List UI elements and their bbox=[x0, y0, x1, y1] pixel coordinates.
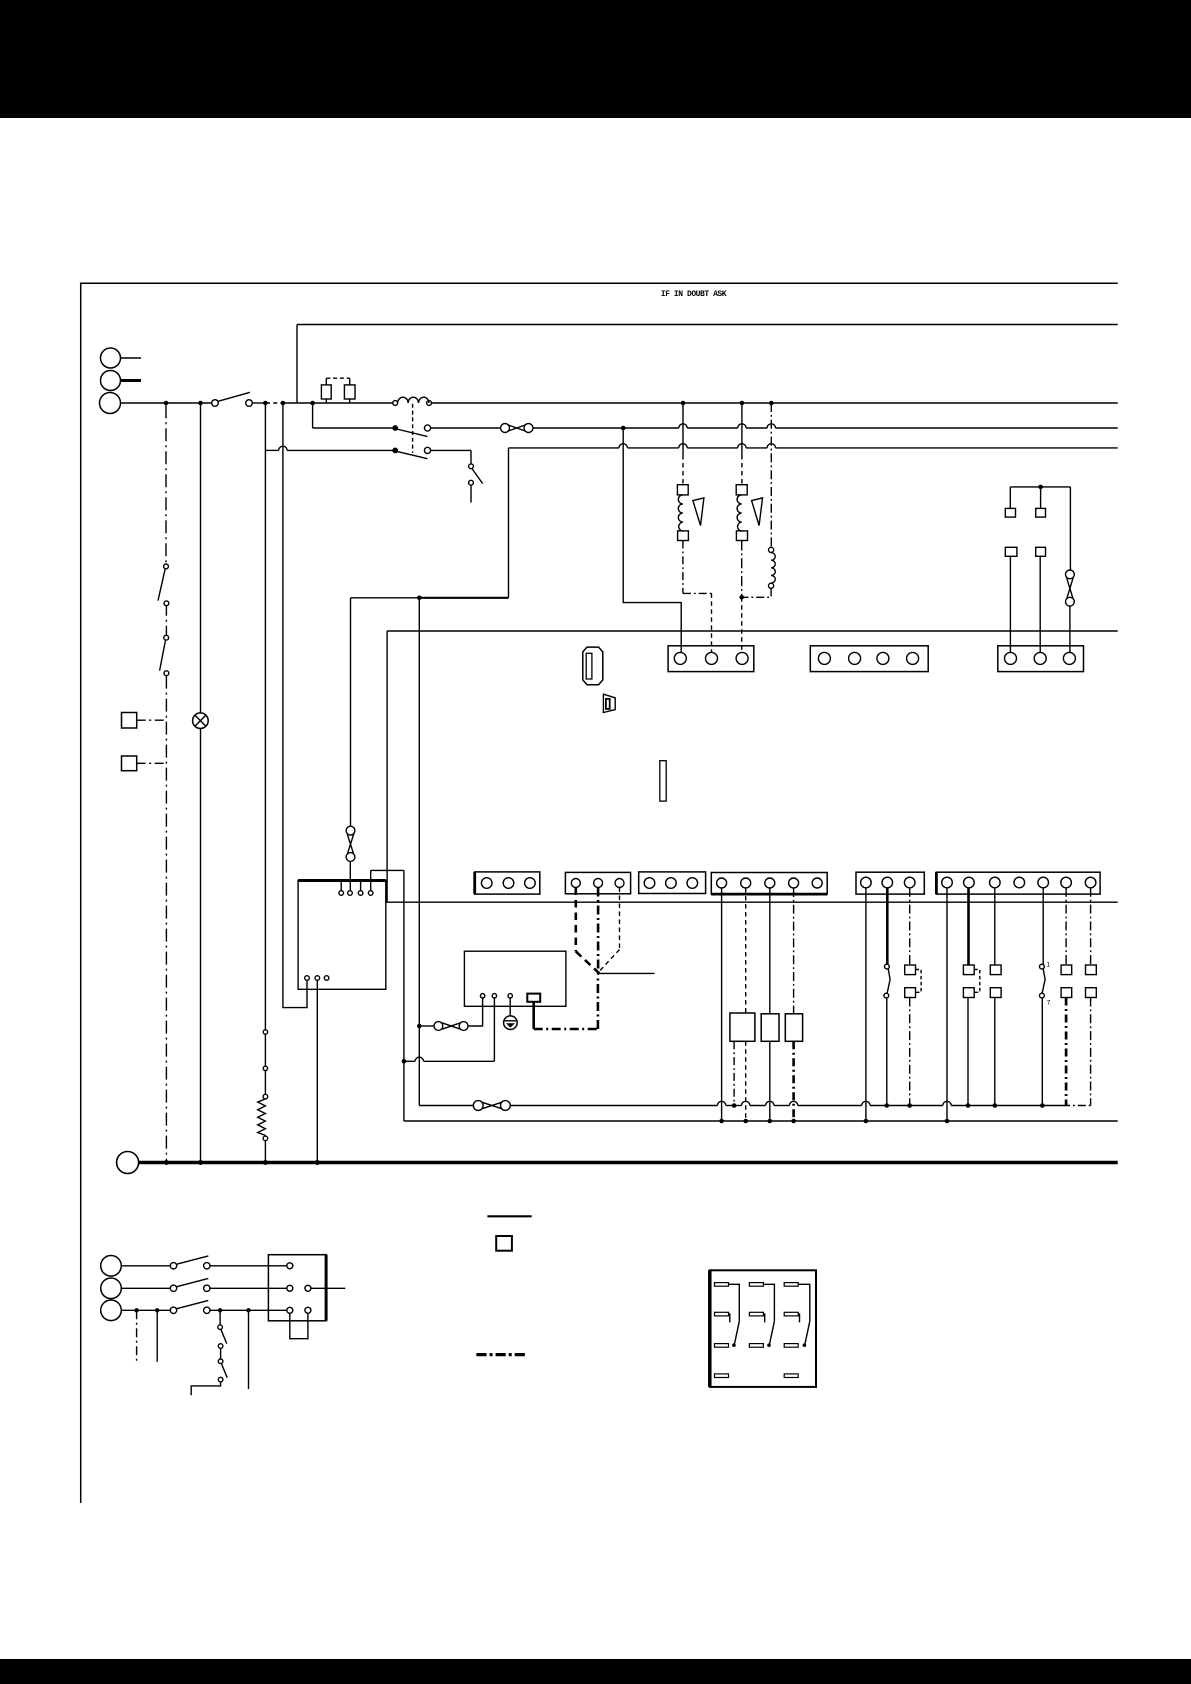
svg-text:1: 1 bbox=[1047, 962, 1051, 969]
inlet box contacts r2 bbox=[287, 1285, 346, 1291]
hop on line1 over D3 bbox=[766, 1101, 774, 1105]
node on main line x265 bbox=[263, 401, 268, 406]
wire: main live line y=403 bbox=[121, 402, 1118, 404]
thermal pair E3 bbox=[905, 965, 921, 998]
relay col2 wire and contact bbox=[763, 1284, 774, 1347]
control box top terminal t4 bbox=[368, 870, 373, 895]
terminal strip S1 bbox=[668, 646, 754, 672]
inlet connector box bbox=[268, 1255, 326, 1321]
relay col2 top terminal bbox=[749, 1283, 763, 1287]
switch on x166 (lower) bbox=[160, 635, 169, 675]
column D3 bbox=[769, 888, 771, 1014]
node F5 on line1 bbox=[1040, 1103, 1045, 1108]
indicator lamp bbox=[193, 713, 209, 729]
relay col1 bottom terminal bbox=[715, 1344, 729, 1348]
node main line x771.3 bbox=[769, 401, 774, 406]
relay col3 bottom terminal bbox=[784, 1344, 798, 1348]
fuse column x683: lower terminal square bbox=[678, 531, 689, 541]
lower box terminal c3 bbox=[508, 994, 512, 998]
fuse column x683: upper terminal square bbox=[677, 485, 688, 495]
wire: dashed from node to strip1 c3 bbox=[741, 597, 743, 652]
relay coil terminal right bbox=[784, 1374, 798, 1378]
fuse column x683: trip flag triangle bbox=[693, 498, 704, 526]
legend solid line sample bbox=[487, 1215, 531, 1217]
svg-text:IF IN DOUBT ASK: IF IN DOUBT ASK bbox=[661, 290, 727, 299]
fuse column x741.9: trip flag triangle bbox=[752, 498, 763, 526]
wire: drop x623.2 jog to strip1 bbox=[623, 428, 681, 652]
mechanical dashed link from choke to switches bbox=[412, 404, 414, 453]
nodes row3 left bbox=[134, 1308, 159, 1312]
control box top terminal t1 bbox=[339, 881, 344, 895]
link (bowtie) on earth return bbox=[434, 1022, 468, 1031]
earth symbol bbox=[504, 998, 518, 1030]
fuse column x741.9: heater coil bbox=[737, 495, 742, 531]
node on main line x200.5 bbox=[198, 401, 203, 406]
nodes on line2 bbox=[719, 1119, 949, 1124]
thermal pair F2 bbox=[963, 965, 979, 998]
wire: E2 tail bbox=[886, 998, 888, 1106]
relay col2 bottom terminal bbox=[749, 1344, 763, 1348]
hop on line3a over x282.9 bbox=[279, 446, 287, 450]
wire: F6 tail thick dash-dot bbox=[1065, 998, 1068, 1106]
inlet box contact r1c1 bbox=[287, 1263, 293, 1269]
switch S1 on main line bbox=[212, 392, 253, 406]
fuse column x683: feeder bbox=[682, 403, 684, 485]
wire: link to vertical B bbox=[419, 1025, 434, 1027]
switch row2 bbox=[170, 1278, 210, 1291]
relay col3 top terminal bbox=[784, 1283, 798, 1287]
terminal strip F bbox=[936, 872, 1100, 894]
wire: phase row2 bbox=[121, 1287, 286, 1289]
hop on line1 over F1 bbox=[943, 1101, 951, 1105]
wire: line3 left section y=450.4 bbox=[265, 449, 471, 451]
key symbol bbox=[583, 647, 603, 685]
wire: dash-dot x166 between switches bbox=[165, 606, 167, 636]
Y node and stub bbox=[597, 971, 655, 974]
fuse link F1 squares on main line bbox=[321, 378, 331, 403]
relay contact column 2 bbox=[1036, 487, 1046, 652]
inductor (choke) on main line bbox=[393, 397, 432, 405]
wire: upper bus y=324.5 bbox=[297, 324, 1118, 326]
wire: dash-dot drop x166 upper bbox=[165, 405, 167, 564]
resistor element on x265.4 bbox=[258, 1099, 266, 1136]
node on main line x282.9 bbox=[281, 401, 286, 406]
wire: bottom neutral bus (thick) bbox=[139, 1161, 1118, 1165]
terminal strip S3 bbox=[998, 646, 1084, 672]
spacer bar symbol bbox=[660, 761, 666, 801]
device box under D3 bbox=[761, 1014, 779, 1042]
column E2 thick feeder bbox=[886, 888, 889, 965]
fuse column x741.9: upper terminal square bbox=[736, 485, 747, 495]
column D1 bbox=[721, 888, 723, 1121]
border frame (left + top) bbox=[81, 283, 1118, 1503]
hop on line1 over D1 bbox=[717, 1101, 725, 1105]
node vertical A y1061.3 bbox=[402, 1059, 407, 1064]
hop on line3 over x623.2 bbox=[619, 444, 627, 448]
hop on line1 over E1 bbox=[862, 1101, 870, 1105]
column F6 dash-dot feeder bbox=[1065, 888, 1067, 965]
wire: stub x248.5 bbox=[248, 1310, 250, 1389]
thermal pair F3 bbox=[990, 965, 1001, 998]
aux switch below line3a bbox=[469, 450, 483, 502]
node vertical B y1026 bbox=[417, 1024, 422, 1029]
lower box terminal c2 bbox=[492, 994, 496, 998]
fuse column x683: heater coil bbox=[678, 495, 683, 531]
solenoid column x771.3: dash-dot feeder bbox=[770, 403, 772, 547]
wire: c1 drop to link bbox=[468, 998, 483, 1026]
device box under D4 bbox=[785, 1014, 802, 1042]
fuse (bowtie) column right bbox=[1066, 487, 1075, 652]
relay col1 top terminal bbox=[715, 1283, 729, 1287]
Y harness: B2 thick dash-dot bbox=[597, 888, 600, 972]
wire: D2 left tail dash-dot bbox=[733, 1041, 735, 1105]
lower box connector symbol bbox=[527, 994, 540, 1029]
column D4 dash-dot feeder bbox=[793, 888, 795, 1014]
wire: line2 y=428 bbox=[313, 427, 1118, 429]
interlock switch chain bbox=[191, 1310, 227, 1395]
column E3 dash-dot feeder bbox=[909, 888, 911, 965]
inlet box contacts r3 bbox=[287, 1307, 311, 1313]
wire: D2 right tail dashed bbox=[745, 1041, 747, 1121]
relay coil terminal left bbox=[715, 1374, 729, 1378]
relay col1 mid terminal bbox=[715, 1312, 730, 1322]
column F7 dash-dot feeder bbox=[1090, 888, 1092, 965]
column E1 bbox=[865, 888, 867, 1121]
nodes on neutral bus bbox=[164, 1160, 320, 1165]
control box bottom terminal b1 bbox=[305, 976, 310, 981]
fuse column x683: dash-dot tail and jog to strip1 bbox=[683, 541, 712, 653]
footer black band bbox=[0, 1659, 1191, 1684]
fuse link F2 squares on main line bbox=[344, 378, 355, 403]
control box top terminal t2 bbox=[348, 861, 353, 895]
lower box outline bbox=[464, 951, 566, 1006]
inlet box U link bbox=[290, 1313, 308, 1338]
wire: jog y597.8 feeding fuse bbox=[508, 448, 510, 598]
wire: dash-dot stub x136.6 bbox=[136, 1310, 138, 1362]
node F2 on line1 bbox=[966, 1103, 971, 1108]
plug symbol bbox=[603, 694, 615, 712]
node F3 on line1 bbox=[993, 1103, 998, 1108]
switch F5 with pin labels bbox=[1040, 962, 1051, 1007]
terminal strip A bbox=[475, 872, 540, 894]
hop on line3 over x741.9 bbox=[738, 444, 746, 448]
legend square sample bbox=[496, 1236, 512, 1251]
supply terminal circle L3 bbox=[100, 393, 121, 414]
hop on line2 over x683 bbox=[679, 424, 687, 428]
wire: drop x200.5 with lamp bbox=[200, 403, 202, 1163]
remote terminal square T2 bbox=[122, 756, 167, 771]
fuse column x741.9: tail to node bbox=[741, 541, 743, 598]
wire: F7 tail dash-dot bbox=[1090, 998, 1092, 1106]
power relay box outline bbox=[710, 1270, 816, 1387]
switch row3 bbox=[170, 1300, 210, 1313]
column F1 bbox=[946, 888, 948, 1121]
phase inlet circle P3 bbox=[101, 1300, 122, 1321]
remote terminal square T1 bbox=[122, 713, 167, 729]
switch on x166 (upper) bbox=[158, 564, 169, 606]
fuse column x741.9: lower terminal square bbox=[736, 531, 747, 541]
Y harness: B3 thin dashed bbox=[599, 888, 620, 972]
terminal strip B bbox=[565, 872, 630, 893]
svg-text:7: 7 bbox=[1047, 1000, 1051, 1007]
wire: line1 y1105.5 bbox=[419, 1105, 1090, 1107]
mechanical dashed link between F1 F2 bbox=[326, 377, 349, 379]
control box top terminal t3 bbox=[358, 881, 363, 895]
switch E2 bbox=[884, 964, 890, 998]
node x741.7 y597.3 bbox=[739, 595, 744, 600]
terminal strip D bbox=[711, 873, 827, 895]
relay col2 mid terminal bbox=[749, 1312, 764, 1322]
control box outline bbox=[298, 881, 386, 990]
hop on line2 over x741.9 bbox=[738, 424, 746, 428]
wire: dash-dot x166 to bottom bus bbox=[165, 676, 167, 1163]
lower contact circle and tail x265.4 bbox=[263, 1136, 268, 1162]
terminal strip E bbox=[856, 872, 924, 894]
node E2 on line1 bbox=[885, 1103, 890, 1108]
link (bowtie) on line1 bbox=[473, 1101, 510, 1111]
wire: drop x265.4 bbox=[264, 403, 266, 1030]
wire: phase row1 bbox=[121, 1265, 286, 1267]
control box bottom terminal b3 bbox=[324, 976, 329, 981]
legend dash-dot sample bbox=[476, 1353, 525, 1356]
wire: E3 tail dash-dot bbox=[909, 998, 911, 1106]
wire: F2 tail bbox=[967, 998, 969, 1106]
wire: F5 tail bbox=[1041, 998, 1043, 1106]
terminal strip S2 bbox=[810, 646, 928, 672]
fuse column x741.9: feeder bbox=[741, 403, 743, 485]
thermal pair F7 bbox=[1086, 965, 1097, 998]
device box under D2 bbox=[730, 1013, 755, 1041]
relay col1 wire and contact bbox=[729, 1284, 740, 1347]
wire: dash-dot solenoid tail to node bbox=[742, 588, 771, 597]
switch S3 on line3a bbox=[393, 447, 431, 458]
hop on line3 over x683 bbox=[679, 444, 687, 448]
hop on line2 over x771.3 bbox=[767, 424, 775, 428]
wire: thick dash-dot to Y node bbox=[534, 975, 598, 1030]
lower box terminal c1 bbox=[480, 994, 484, 998]
header black band bbox=[0, 0, 1191, 118]
wire: line2 y1121 bbox=[404, 1120, 1118, 1122]
wire: vertical x387.1 and line y902.2 bbox=[387, 631, 1118, 902]
nodes row3 right bbox=[218, 1308, 251, 1312]
solenoid coil x771.1 bbox=[769, 547, 776, 588]
wire: vertical B x419.3 bbox=[418, 598, 420, 1106]
wire: stub x157.2 bbox=[156, 1310, 158, 1362]
wire: drop x282.9 to control box terminal bbox=[283, 403, 307, 1008]
terminal strip C bbox=[639, 872, 706, 894]
neutral terminal circle bbox=[117, 1152, 139, 1174]
relay col3 wire and contact bbox=[798, 1284, 810, 1347]
column D2 dashed feeder bbox=[745, 888, 747, 1013]
relay contact block (top right) feeder bbox=[1010, 486, 1070, 488]
column F5 bbox=[1042, 888, 1044, 965]
column F3 bbox=[994, 888, 996, 965]
link (bowtie) on line2 bbox=[501, 424, 534, 433]
wire: line y631 bbox=[387, 630, 1118, 632]
phase inlet circle P2 bbox=[101, 1278, 122, 1299]
relay contact column 1 bbox=[1005, 487, 1017, 652]
hop on line3 over x771.3 bbox=[767, 444, 775, 448]
column F2 thick feeder bbox=[967, 888, 970, 965]
supply terminal circle L1 bbox=[101, 348, 142, 368]
wire: drop x312.6 to line2 bbox=[312, 403, 314, 428]
wire: D4 tail thick dash-dot bbox=[792, 1041, 795, 1121]
node main line x741.9 bbox=[740, 401, 745, 406]
node E3 on line1 bbox=[907, 1103, 912, 1108]
wire: t4 feed to vertical A bbox=[371, 869, 404, 871]
switch S2 on line2 bbox=[393, 425, 431, 437]
wire: vertical A x403.9 bbox=[403, 870, 405, 1121]
wire: D3 tail bbox=[769, 1041, 771, 1121]
node line2 x623.2 bbox=[621, 426, 626, 431]
control box bottom terminal b2 bbox=[315, 976, 320, 1163]
thermostat contact circles on x265.4 bbox=[263, 1030, 268, 1099]
node main line x683 bbox=[681, 401, 686, 406]
wire: riser x297 to upper bus bbox=[296, 325, 298, 404]
node jog x419.3 bbox=[417, 596, 422, 601]
switch row1 bbox=[170, 1256, 210, 1269]
wire: c2 drop to vertical A with hop bbox=[404, 998, 495, 1061]
hop on line1 over D2r bbox=[742, 1101, 750, 1105]
supply terminal circle L2 (thick tail) bbox=[101, 371, 142, 391]
node on main line x312.6 bbox=[310, 401, 315, 406]
node D2 left on line1 bbox=[732, 1103, 737, 1108]
dashed gap on main line bbox=[266, 402, 281, 404]
wire: F3 tail bbox=[994, 998, 996, 1106]
wire: line3 right section y=447.9 bbox=[509, 447, 1118, 449]
node relay feeder bbox=[1038, 485, 1043, 490]
wire: phase row3 bbox=[121, 1309, 286, 1311]
fuse (bowtie) above control box bbox=[346, 826, 355, 861]
node on main line x166 bbox=[164, 401, 169, 406]
thermal pair F6 bbox=[1061, 965, 1072, 998]
relay col3 mid terminal bbox=[784, 1312, 799, 1322]
Y harness: B1 thick dashed bbox=[576, 888, 598, 972]
hop on line1 over D4 bbox=[789, 1101, 797, 1105]
phase inlet circle P1 bbox=[101, 1256, 122, 1277]
